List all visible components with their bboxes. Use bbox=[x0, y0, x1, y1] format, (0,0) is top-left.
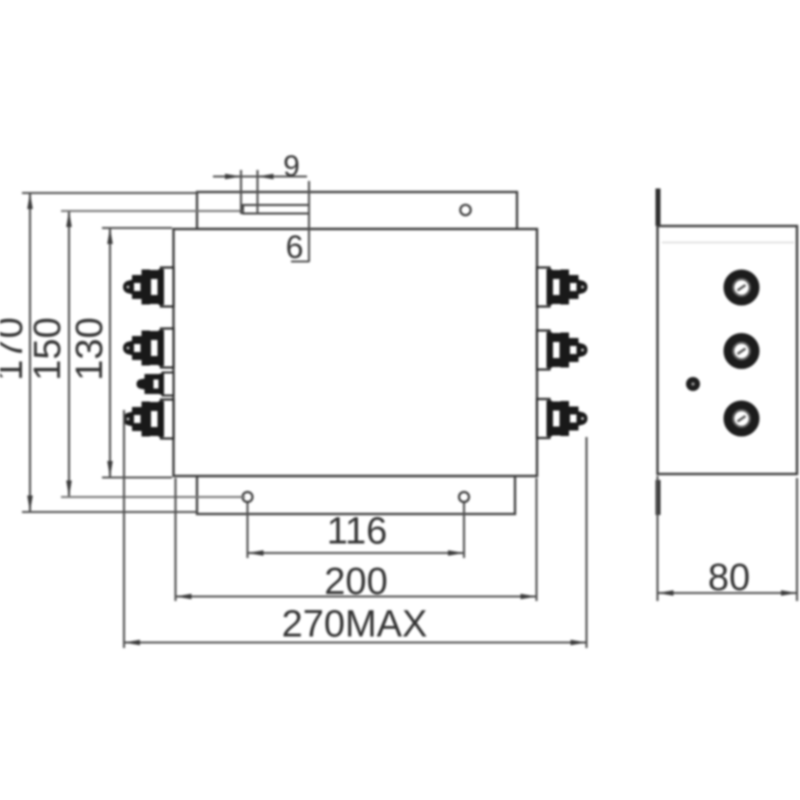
svg-text:116: 116 bbox=[327, 511, 388, 553]
side flange tab top bbox=[656, 189, 661, 227]
dimension 116 bbox=[248, 503, 465, 558]
terminal L3 bbox=[123, 400, 174, 439]
side ground stud bbox=[686, 377, 700, 391]
dimension 80 bbox=[658, 476, 798, 601]
side terminal 1 bbox=[728, 274, 755, 301]
label 170 bbox=[0, 317, 31, 380]
side terminal 2 bbox=[728, 338, 755, 365]
terminal R3 bbox=[537, 399, 588, 438]
label 200 bbox=[324, 561, 387, 603]
side view body bbox=[658, 226, 798, 474]
dimension 150 bbox=[61, 211, 245, 497]
dimension 200 bbox=[176, 478, 537, 601]
terminal R2 bbox=[537, 331, 588, 370]
svg-text:200: 200 bbox=[324, 561, 387, 603]
label 116 bbox=[327, 511, 388, 553]
terminal L2 bbox=[123, 329, 174, 368]
label 9 bbox=[283, 150, 300, 183]
main body box bbox=[174, 229, 538, 476]
svg-text:150: 150 bbox=[27, 317, 69, 380]
label 6 bbox=[286, 229, 304, 265]
terminal R1 bbox=[537, 268, 588, 307]
svg-text:9: 9 bbox=[283, 150, 300, 183]
svg-text:130: 130 bbox=[69, 317, 111, 380]
dimension 6 (slot height leader) bbox=[291, 181, 309, 262]
svg-text:270MAX: 270MAX bbox=[282, 604, 428, 646]
dimension 9 (slot width) bbox=[213, 170, 307, 214]
dimension 130 bbox=[102, 228, 172, 478]
dimension 270MAX bbox=[124, 410, 587, 648]
mounting slot in top flange bbox=[243, 205, 309, 214]
top flange hole bbox=[460, 205, 470, 215]
side flange tab bottom bbox=[656, 480, 661, 515]
label 150 bbox=[27, 317, 69, 380]
label 270MAX bbox=[282, 604, 428, 646]
terminal L1 bbox=[123, 268, 174, 307]
svg-text:6: 6 bbox=[286, 229, 304, 265]
side view seam line bbox=[662, 242, 794, 244]
ground stud L bbox=[137, 373, 174, 396]
side terminal 3 bbox=[728, 405, 755, 432]
label 130 bbox=[69, 317, 111, 380]
bottom mounting flange bbox=[197, 476, 515, 514]
svg-text:80: 80 bbox=[708, 557, 750, 599]
top mounting flange bbox=[197, 192, 517, 229]
bottom flange hole right bbox=[459, 492, 469, 502]
label 80 bbox=[708, 557, 750, 599]
dimension 170 bbox=[22, 193, 197, 512]
bottom flange hole left bbox=[243, 492, 253, 502]
